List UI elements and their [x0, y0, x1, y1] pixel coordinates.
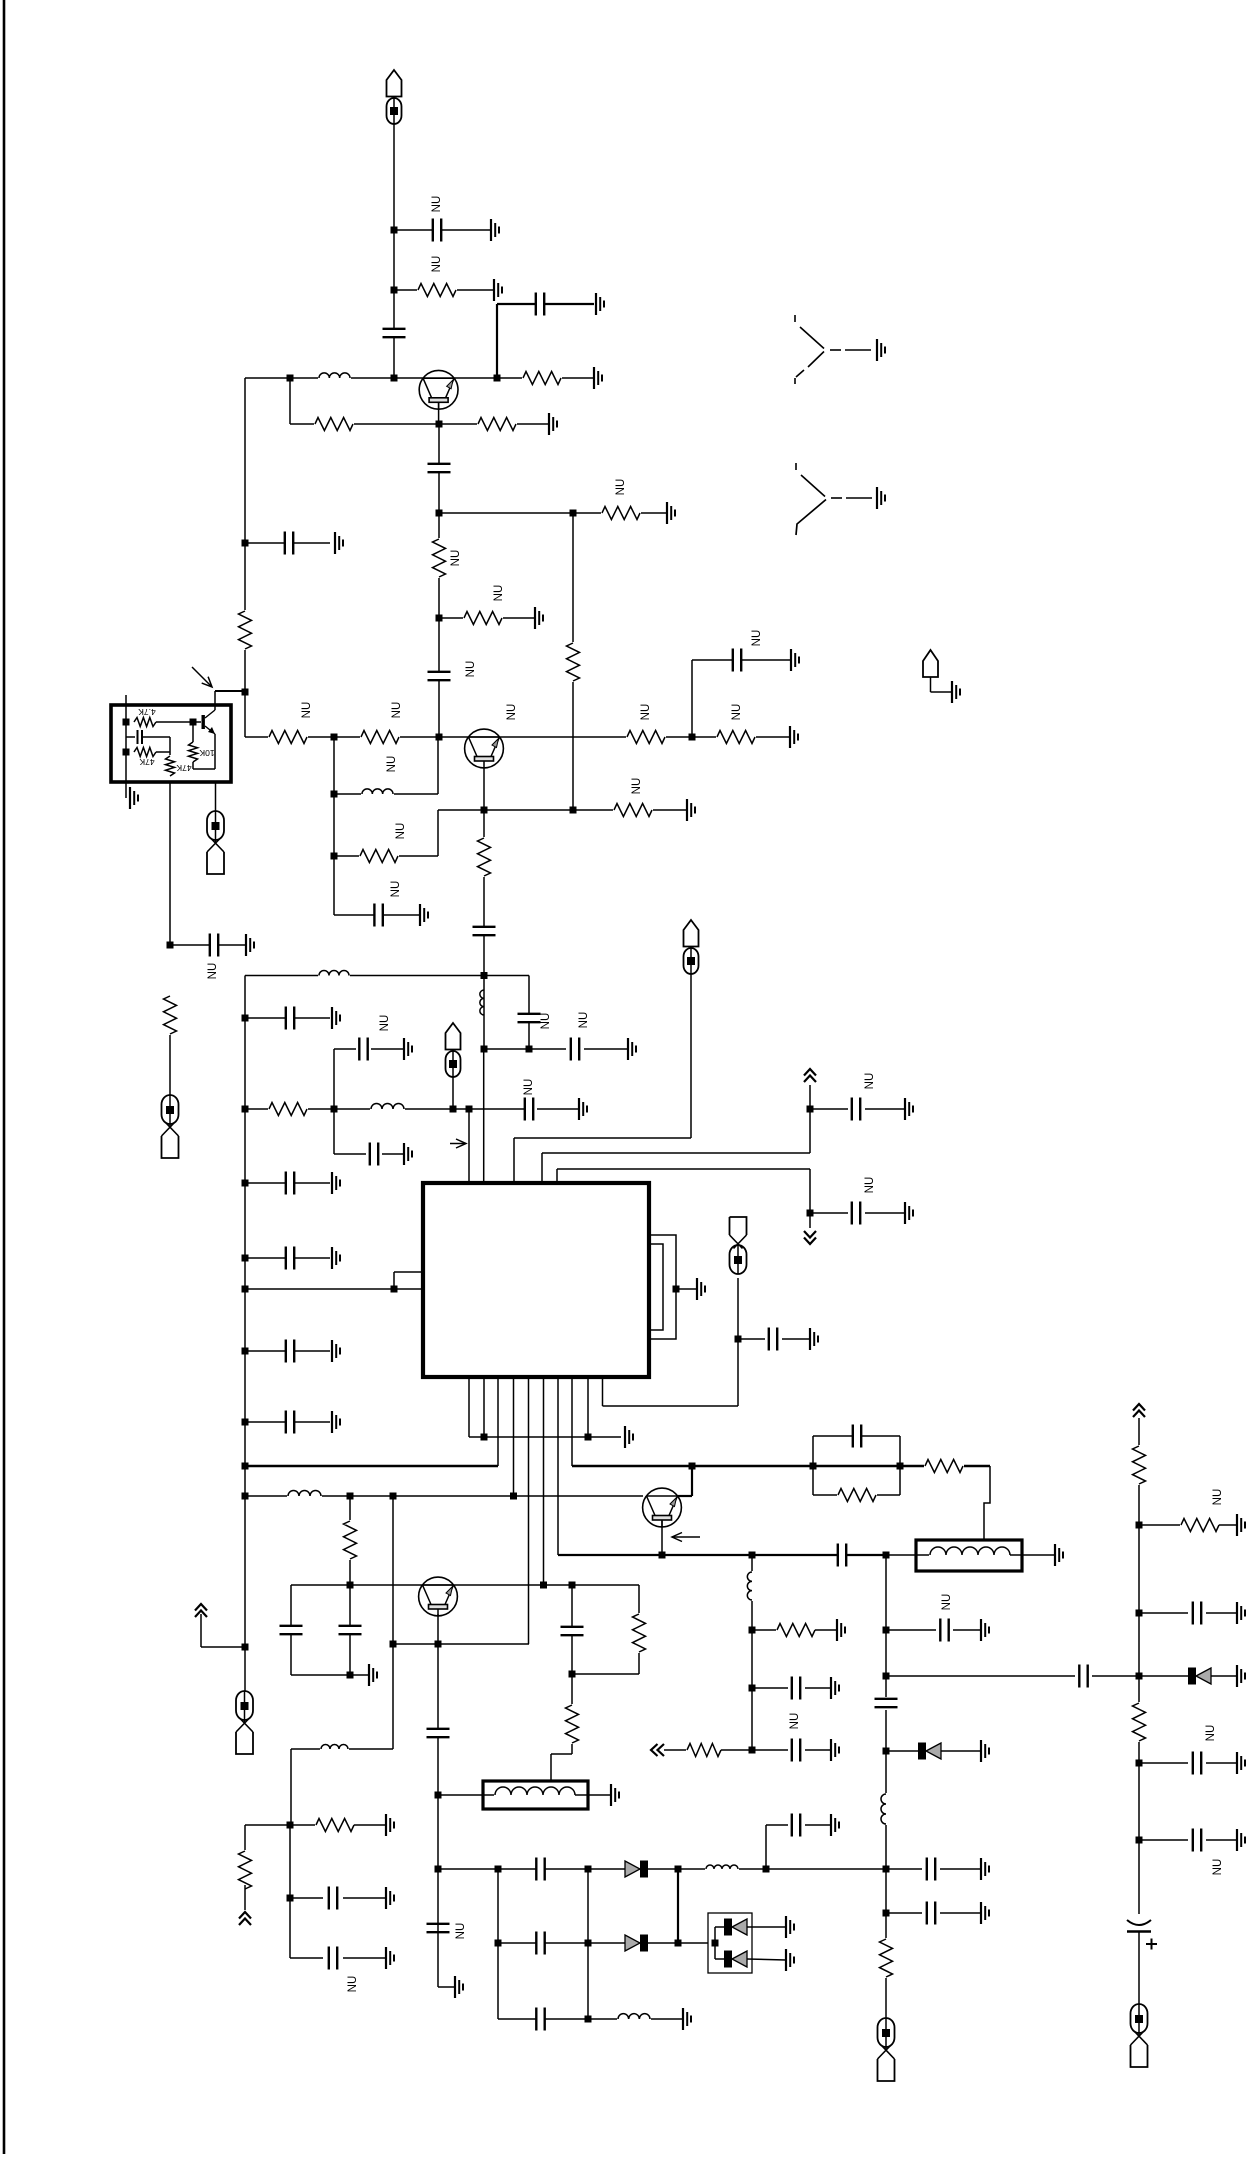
resistor R12 NU: [716, 729, 756, 746]
wire box rail: [125, 695, 127, 782]
wire: [886, 1629, 936, 1631]
svg-text:NU: NU: [1205, 1725, 1217, 1742]
wire: [931, 691, 953, 693]
svg-text:NU: NU: [431, 256, 443, 273]
svg-text:NU: NU: [523, 1079, 535, 1096]
wire: [677, 1869, 679, 1943]
wire: [571, 1585, 573, 1674]
wire: [1211, 1675, 1237, 1677]
ground: [1237, 1752, 1245, 1774]
wire to R1: [394, 289, 494, 291]
wire IC bottom pin 10: [602, 1377, 604, 1406]
capacitor C19: [285, 1339, 294, 1363]
junction: [242, 1644, 249, 1651]
wire row 1169: [557, 1168, 810, 1170]
capacitor C16: [285, 1006, 294, 1030]
wire: [886, 1750, 918, 1752]
junction: [481, 1434, 488, 1441]
wire: [169, 737, 171, 757]
resistor R14 NU: [359, 848, 399, 865]
capacitor C46 NU: [1192, 1828, 1201, 1852]
inductor L10: [705, 1863, 739, 1870]
ground: [386, 1947, 394, 1969]
wire: [215, 782, 217, 811]
wire RC loop left: [812, 1436, 814, 1495]
wire: [752, 1687, 788, 1689]
wire row 1109: [245, 1108, 526, 1110]
ground: [332, 1411, 340, 1433]
filter box FL1: [483, 1781, 588, 1809]
junction: [585, 1434, 592, 1441]
wire: [886, 1868, 922, 1870]
capacitor C45 NU: [1192, 1751, 1201, 1775]
transistor Q1: [419, 370, 458, 409]
capacitor C47 electrolytic: [1124, 1914, 1157, 1950]
wire: [192, 762, 194, 769]
junction: [673, 1286, 680, 1293]
capacitor C42: [536, 1931, 545, 1955]
port P9: [1131, 2004, 1148, 2067]
ground: [596, 293, 604, 315]
wire IC bottom pin 8: [571, 1377, 573, 1466]
inductor L7: [879, 1793, 887, 1825]
wire to C9: [170, 944, 246, 946]
capacitor C39 NU: [426, 1923, 450, 1932]
junction: [807, 1106, 814, 1113]
svg-text:47K: 47K: [139, 757, 154, 767]
capacitor C44: [1192, 1601, 1201, 1625]
capacitor C12 NU: [570, 1037, 579, 1061]
ground: [831, 1739, 839, 1761]
wire: [393, 1272, 395, 1289]
resistor R23: [686, 1742, 722, 1759]
wire: [765, 1825, 767, 1869]
transistor Q3: [643, 1488, 682, 1527]
ground: [790, 726, 798, 748]
chevron in: [651, 1744, 664, 1756]
chevron supply: [1133, 1404, 1145, 1417]
wire IC top pin 2: [483, 1049, 485, 1183]
junction: [883, 1910, 890, 1917]
junction: [749, 1685, 756, 1692]
wire: [483, 810, 485, 976]
wire: [354, 1824, 386, 1826]
capacitor C37: [328, 1886, 337, 1910]
wire: [885, 1710, 887, 2018]
svg-text:NU: NU: [465, 661, 477, 678]
capacitor in box: [138, 730, 143, 744]
port P6: [730, 1217, 747, 1274]
wire RC loop bottom: [813, 1494, 900, 1496]
resistor R24: [342, 1520, 359, 1560]
wire: [290, 1957, 323, 1959]
ground: [791, 649, 799, 671]
junction: [585, 1866, 592, 1873]
svg-text:NU: NU: [615, 479, 627, 496]
wire: [437, 1869, 439, 1987]
wire RC loop right: [899, 1436, 901, 1495]
wire: [815, 1629, 837, 1631]
resistor R31: [1131, 1702, 1148, 1742]
wire to C8: [245, 542, 330, 544]
wire: [1139, 1524, 1181, 1526]
svg-text:NU: NU: [1212, 1489, 1224, 1506]
wire row 1153: [542, 1152, 810, 1154]
capacitor C20: [285, 1410, 294, 1434]
junction: [1136, 1837, 1143, 1844]
wire to C3: [497, 303, 594, 305]
capacitor C11 NU: [517, 1013, 541, 1022]
svg-text:NU: NU: [789, 1713, 801, 1730]
ground: [404, 1143, 412, 1165]
capacitor C30: [926, 1901, 935, 1925]
junction: [1136, 1610, 1143, 1617]
ground: [667, 502, 675, 524]
wire: [603, 1405, 739, 1407]
wire row 2019: [498, 2018, 683, 2020]
junction: [242, 689, 249, 696]
wire: [349, 1585, 351, 1675]
wire: [193, 768, 215, 770]
wire: [290, 1749, 292, 1825]
svg-text:NU: NU: [506, 704, 518, 721]
junction: [331, 853, 338, 860]
wire: [126, 736, 135, 738]
resistor R3: [314, 416, 354, 433]
capacitor C32 NU: [791, 1738, 800, 1762]
resistor R28: [237, 1850, 254, 1890]
junction: [287, 375, 294, 382]
wire Q2 emitter: [483, 768, 485, 810]
junction: [689, 1463, 696, 1470]
ground: [831, 1814, 839, 1836]
ground: [837, 1619, 845, 1641]
resistor R20: [924, 1458, 964, 1475]
junction: [675, 1866, 682, 1873]
svg-text:NU: NU: [864, 1073, 876, 1090]
port P1 (antenna): [387, 70, 402, 124]
wire: [350, 1674, 369, 1676]
capacitor C3: [535, 292, 544, 316]
inductor L9: [320, 1743, 349, 1751]
svg-text:NU: NU: [941, 1594, 953, 1611]
junction: [331, 791, 338, 798]
wire: [437, 810, 439, 856]
junction: [287, 1822, 294, 1829]
arrow annotation: [672, 1533, 700, 1542]
ground: [455, 1976, 463, 1998]
capacitor C41: [791, 1813, 800, 1837]
port P4: [446, 1023, 461, 1077]
wire base row Q1: [245, 377, 594, 379]
wire cap row 1183: [245, 1182, 330, 1184]
junction: [1136, 1673, 1143, 1680]
resistor R30 NU: [1180, 1517, 1220, 1534]
diode D6: [724, 1951, 747, 1968]
wire: [349, 1496, 351, 1585]
junction: [540, 1582, 547, 1589]
wire: [333, 1049, 335, 1154]
junction: [712, 1940, 719, 1947]
resistor R21: [878, 1938, 895, 1978]
resistor R8: [565, 642, 582, 682]
wire: [782, 1338, 810, 1340]
wire: [664, 1749, 688, 1751]
svg-text:NU: NU: [864, 1177, 876, 1194]
wire: [169, 1035, 171, 1095]
junction: [495, 1940, 502, 1947]
resistor R9 NU: [268, 729, 308, 746]
wire: [125, 782, 127, 798]
wire: [715, 1958, 724, 1960]
junction: [749, 1627, 756, 1634]
port P3: [162, 1095, 179, 1158]
ground: [1237, 1602, 1245, 1624]
wire base row Q2: [245, 736, 790, 738]
capacitor C9 NU: [209, 933, 218, 957]
ground: [491, 219, 499, 241]
ground: [981, 1902, 989, 1924]
ground: [369, 1664, 377, 1686]
junction: [391, 375, 398, 382]
resistor R26: [564, 1704, 581, 1744]
capacitor C21 NU: [851, 1097, 860, 1121]
subcircuit box: [111, 705, 231, 782]
wire: [738, 1338, 765, 1340]
capacitor C22 NU: [851, 1201, 860, 1225]
junction: [749, 1747, 756, 1754]
ground: [981, 1858, 989, 1880]
wire: [571, 1674, 573, 1754]
wire emitter row Q2: [438, 809, 687, 811]
wire: [809, 1169, 811, 1213]
capacitor C17: [285, 1171, 294, 1195]
ground: [981, 1740, 989, 1762]
wire: [638, 1585, 640, 1674]
ground: [810, 1328, 818, 1350]
wire row 1555: [558, 1554, 886, 1556]
wire: [809, 1085, 811, 1153]
wire: [291, 1674, 350, 1676]
wire cap row 1351: [245, 1350, 330, 1352]
junction: [436, 615, 443, 622]
wire: [334, 1048, 356, 1050]
svg-text:NU: NU: [390, 881, 402, 898]
capacitor C29: [926, 1857, 935, 1881]
junction: [883, 1748, 890, 1755]
wire: [290, 1585, 292, 1675]
wire row 1049: [484, 1048, 566, 1050]
wire: [587, 1869, 589, 2019]
wire: [810, 1212, 848, 1214]
svg-text:NU: NU: [1212, 1859, 1224, 1876]
junction: [675, 1940, 682, 1947]
wire: [575, 1794, 611, 1796]
wire: [1092, 1675, 1188, 1677]
junction: [242, 540, 249, 547]
junction: [242, 1348, 249, 1355]
wire: [291, 1584, 350, 1586]
wire: [343, 1897, 386, 1899]
wire Q1 emitter: [438, 402, 440, 424]
ground: [332, 1007, 340, 1029]
chevron supply up: [804, 1069, 816, 1082]
wire IC bottom pin 1: [468, 1377, 470, 1437]
ground: [246, 934, 254, 956]
junction: [883, 1866, 890, 1873]
wire: [156, 751, 170, 753]
wire: [1206, 1612, 1237, 1614]
wire: [809, 1213, 811, 1228]
capacitor C5 NU: [427, 671, 451, 680]
wire Q5 collector: [214, 691, 216, 710]
resistor R2: [522, 370, 562, 387]
wire: [940, 1868, 981, 1870]
junction: [569, 1582, 576, 1589]
junction: [347, 1672, 354, 1679]
svg-text:NU: NU: [301, 702, 313, 719]
resistor R13 NU: [613, 802, 653, 819]
diode D5: [724, 1919, 747, 1936]
wire IC bottom pin 7: [557, 1377, 559, 1555]
junction: [390, 1493, 397, 1500]
inductor FL1 coil: [494, 1785, 576, 1796]
chevron supply: [195, 1604, 207, 1617]
inductor FL2 coil: [929, 1545, 1011, 1556]
ground: [332, 1247, 340, 1269]
capacitor C8: [284, 531, 293, 555]
arrow annotation: [192, 667, 212, 687]
wire: [1206, 1839, 1237, 1841]
capacitor C28: [1079, 1664, 1088, 1688]
ground: [335, 532, 343, 554]
wire: [244, 1885, 246, 1910]
wire: [805, 1749, 831, 1751]
junction: [242, 1255, 249, 1262]
capacitor C2 series: [382, 328, 406, 337]
wire row 1644: [393, 1643, 529, 1645]
wire cap row 1018: [245, 1017, 330, 1019]
svg-text:NU: NU: [540, 1013, 552, 1030]
wire: [1219, 1524, 1237, 1526]
ground: [981, 1619, 989, 1641]
svg-text:4.7K: 4.7K: [138, 707, 156, 717]
wire x529: [528, 976, 530, 1050]
ground: [831, 1677, 839, 1699]
junction: [494, 375, 501, 382]
junction: [749, 1552, 756, 1559]
svg-text:NU: NU: [578, 1012, 590, 1029]
wire: [752, 1749, 788, 1751]
wire VCC row right: [572, 1465, 990, 1467]
wire IC bottom pin 4: [513, 1377, 515, 1496]
wire to C7: [334, 914, 420, 916]
svg-text:NU: NU: [455, 1923, 467, 1940]
wire: [584, 1048, 628, 1050]
junction: [242, 1015, 249, 1022]
junction: [435, 1866, 442, 1873]
capacitor C6 NU: [732, 648, 741, 672]
wire: [290, 1897, 323, 1899]
wire: [200, 1614, 202, 1647]
filter box FL2: [916, 1540, 1022, 1571]
ground: [628, 1038, 636, 1060]
junction: [391, 1286, 398, 1293]
junction: [331, 1106, 338, 1113]
wire Q4 base/collector row: [350, 1584, 457, 1586]
resistor 47K vertical: [164, 755, 177, 777]
diode D4: [625, 1935, 648, 1952]
ground: [579, 1098, 587, 1120]
junction: [883, 1552, 890, 1559]
capacitor C43: [536, 2007, 545, 2031]
ground: [877, 487, 885, 509]
wire IC right bracket inner: [649, 1244, 663, 1330]
junction: [436, 421, 443, 428]
junction: [242, 1180, 249, 1187]
wire row 618: [439, 617, 535, 619]
wire: [691, 1466, 693, 1496]
ground: [877, 339, 885, 361]
ground: [905, 1202, 913, 1224]
junction: [481, 1046, 488, 1053]
junction: [331, 734, 338, 741]
capacitor C10: [472, 926, 496, 935]
wire: [715, 1926, 724, 1928]
ground: [1237, 1829, 1245, 1851]
capacitor C35: [338, 1625, 362, 1634]
wire: [721, 1749, 752, 1751]
svg-text:NU: NU: [386, 756, 398, 773]
capacitor C40: [536, 1857, 545, 1881]
wire: [143, 736, 170, 738]
wire IC right bracket outer: [649, 1235, 676, 1339]
wire row 513: [439, 512, 667, 514]
capacitor C31: [791, 1676, 800, 1700]
junction: [435, 1792, 442, 1799]
ground: [1237, 1665, 1245, 1687]
capacitor C34: [279, 1625, 303, 1634]
ground: [332, 1172, 340, 1194]
wire row 856: [334, 855, 438, 857]
wire: [245, 1824, 316, 1826]
junction: [585, 2016, 592, 2023]
wire: [438, 618, 440, 737]
inductor L5: [370, 1102, 405, 1111]
junction: [391, 227, 398, 234]
junction: [390, 1641, 397, 1648]
junction: [242, 1286, 249, 1293]
resistor R25: [631, 1613, 648, 1653]
port P2: [207, 811, 224, 874]
resistor R22: [776, 1622, 816, 1639]
wire row 794: [334, 793, 438, 795]
wire IC top pin 3: [513, 1138, 515, 1183]
junction: [659, 1552, 666, 1559]
svg-text:NU: NU: [347, 1976, 359, 1993]
wire: [1139, 1612, 1188, 1614]
junction: [242, 1419, 249, 1426]
ground: [332, 1340, 340, 1362]
wire IC bottom pin 5: [528, 1377, 530, 1644]
wire IC bottom pin 6: [543, 1377, 545, 1585]
wire IC bottom pin 9: [587, 1377, 589, 1437]
junction: [689, 734, 696, 741]
ground: [625, 1426, 633, 1448]
wire: [438, 1986, 455, 1988]
resistor R10 NU: [360, 729, 400, 746]
ground: [420, 904, 428, 926]
